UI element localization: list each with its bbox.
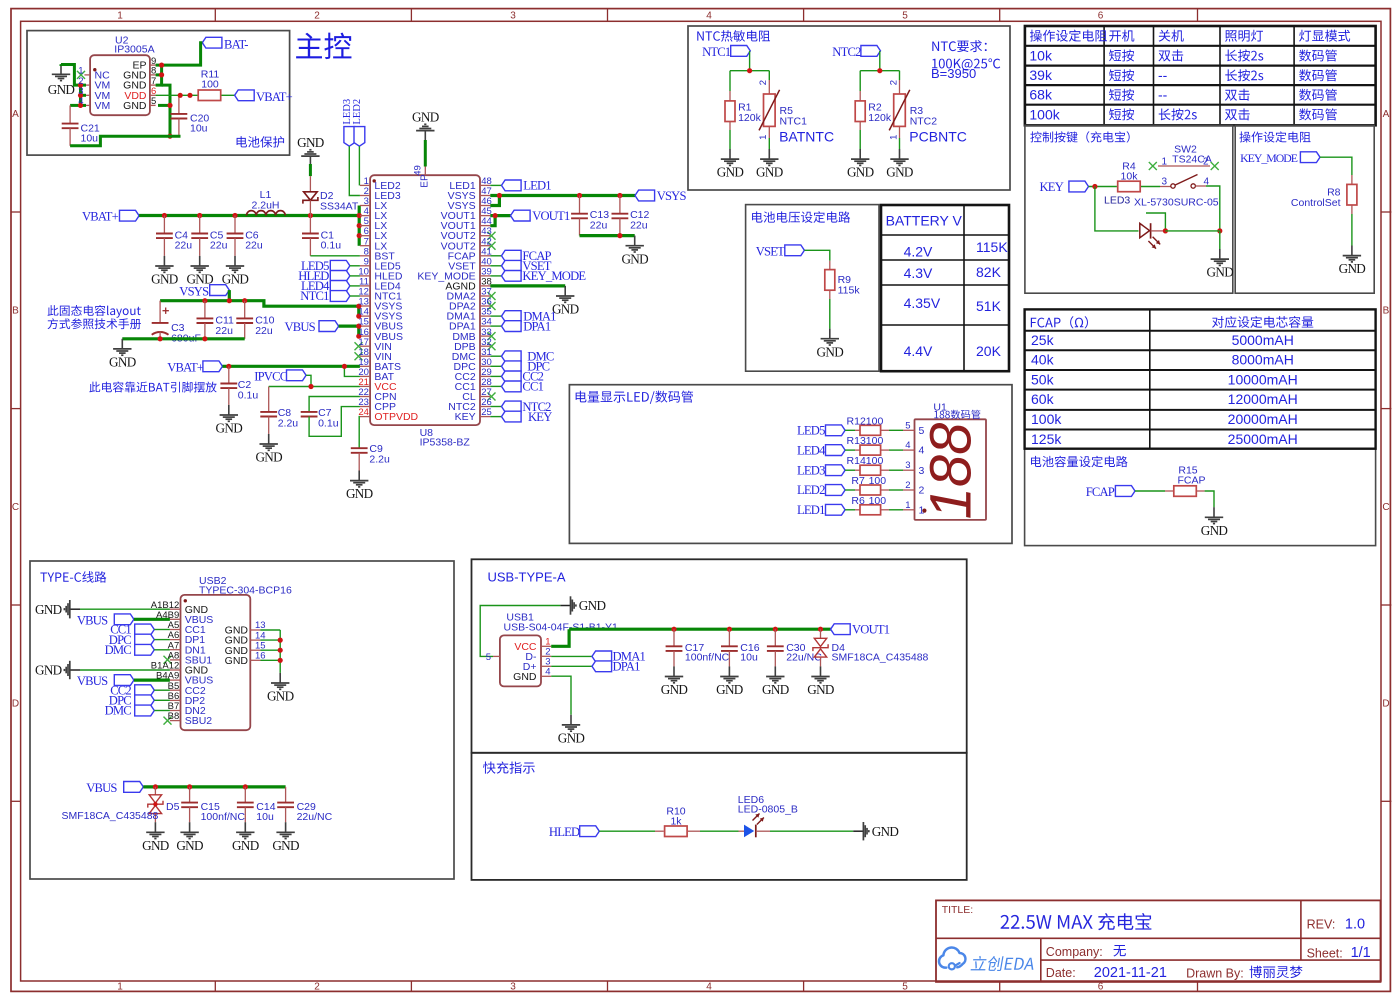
svg-text:6: 6 — [1098, 11, 1104, 22]
wire AGND pin38 — [490, 284, 565, 287]
wire CPN to C7 — [309, 397, 360, 412]
resistor R8 ControlSet — [1347, 184, 1357, 205]
svg-text:5: 5 — [905, 420, 910, 431]
svg-text:22u: 22u — [255, 325, 273, 337]
svg-text:USB-TYPE-A: USB-TYPE-A — [488, 570, 566, 585]
NTC section box — [688, 26, 1010, 190]
U8 left pins — [360, 184, 370, 186]
svg-text:GND: GND — [255, 450, 282, 465]
svg-text:2.2uH: 2.2uH — [251, 199, 279, 211]
svg-text:GND: GND — [346, 486, 373, 501]
wire GND bus right of USB2 — [279, 630, 281, 673]
svg-text:GND: GND — [716, 682, 743, 697]
svg-text:22u: 22u — [630, 220, 648, 232]
capacitor C20 — [178, 95, 180, 114]
resistor R10 1k — [665, 826, 688, 837]
svg-text:LED-0805_B: LED-0805_B — [738, 803, 798, 815]
svg-text:GND: GND — [272, 838, 299, 853]
ground R8 — [1351, 246, 1353, 256]
label 操作设定电阻 — [1239, 131, 1310, 142]
svg-text:KEY_MODE: KEY_MODE — [1240, 151, 1298, 165]
svg-text:PCBNTC: PCBNTC — [909, 128, 967, 144]
svg-text:SS34AT: SS34AT — [320, 201, 359, 213]
svg-text:5000mAH: 5000mAH — [1232, 332, 1294, 348]
svg-text:D: D — [1382, 699, 1389, 710]
TVS diode D5 — [154, 787, 156, 795]
svg-text:3: 3 — [510, 982, 516, 993]
svg-text:1: 1 — [1162, 156, 1168, 167]
svg-text:2021-11-21: 2021-11-21 — [1094, 965, 1167, 981]
svg-text:NTC2: NTC2 — [910, 116, 938, 128]
svg-text:4: 4 — [905, 440, 910, 451]
TVS diode D4 — [820, 629, 822, 638]
svg-text:--: -- — [1158, 67, 1168, 83]
svg-text:4.2V: 4.2V — [904, 244, 933, 260]
wire VSET to R9 — [804, 250, 829, 260]
svg-text:115k: 115k — [838, 285, 861, 297]
wire LED3 net stub — [1146, 213, 1165, 231]
svg-text:10k: 10k — [1029, 47, 1053, 63]
svg-text:LED1: LED1 — [797, 503, 825, 517]
operation resistor section box — [1235, 125, 1374, 293]
note 此电容靠近BAT引脚摆放 — [89, 382, 216, 393]
wire HLED to R10 — [599, 830, 655, 832]
svg-text:BATTERY V: BATTERY V — [886, 212, 963, 228]
ground key circuit — [1219, 249, 1221, 259]
label 电池容量设定电路 — [1031, 456, 1128, 467]
net flags DMC DPC CC2 CC1 — [490, 355, 501, 357]
USB1 pins — [493, 655, 500, 657]
FCAP table text — [1031, 316, 1088, 328]
svg-text:GND: GND — [558, 731, 585, 746]
svg-text:1: 1 — [888, 135, 899, 140]
svg-text:4: 4 — [706, 11, 712, 22]
svg-text:1: 1 — [117, 982, 123, 993]
svg-text:GND: GND — [35, 663, 62, 678]
svg-text:BATNTC: BATNTC — [779, 128, 834, 144]
svg-text:5: 5 — [151, 96, 156, 107]
IC U2 IP3005A body — [90, 55, 150, 115]
wire C7 to CPP — [309, 407, 360, 437]
ground AGND — [564, 286, 566, 296]
svg-text:2: 2 — [1203, 156, 1209, 167]
net flag BAT- — [202, 37, 222, 48]
svg-text:LED2: LED2 — [797, 483, 825, 497]
capacitor C8 — [268, 387, 270, 412]
wire GND B to USB2 — [80, 669, 170, 671]
wire LED4 to R13 — [845, 449, 855, 451]
svg-text:FCAP: FCAP — [1086, 485, 1115, 499]
svg-text:3: 3 — [919, 465, 925, 477]
wire R10 to LED6 — [688, 830, 700, 832]
svg-text:3: 3 — [510, 11, 516, 22]
title block frame — [936, 900, 1381, 982]
wire VBUS to pins 15 16 — [339, 325, 360, 328]
svg-text:VSYS: VSYS — [179, 284, 209, 298]
wire R14 to U1 — [881, 469, 889, 471]
svg-text:125k: 125k — [1031, 431, 1062, 447]
ground R9 — [829, 329, 831, 339]
svg-text:CC1: CC1 — [522, 380, 543, 394]
svg-text:0.1u: 0.1u — [238, 390, 259, 402]
svg-text:6: 6 — [1098, 982, 1104, 993]
svg-text:100: 100 — [201, 79, 219, 91]
label TYPE-C线路 — [40, 571, 106, 583]
svg-text:HLED: HLED — [549, 825, 580, 839]
svg-text:LED5: LED5 — [797, 424, 825, 438]
svg-text:VBUS: VBUS — [86, 781, 117, 795]
svg-text:GND: GND — [1339, 261, 1366, 276]
wire VBUS A — [134, 618, 170, 621]
svg-text:22u: 22u — [590, 220, 608, 232]
svg-text:39k: 39k — [1029, 67, 1053, 83]
wire IPVCC VCC net — [306, 375, 311, 386]
wire R13 to U1 — [881, 449, 889, 451]
svg-text:5: 5 — [486, 652, 491, 663]
resistor R11 — [198, 90, 221, 101]
wire R12 to U1 — [881, 429, 889, 431]
wire NTC1 junction — [749, 51, 751, 71]
svg-text:VM: VM — [95, 100, 111, 112]
wire GND A to USB2 — [80, 608, 170, 610]
svg-text:OTPVDD: OTPVDD — [374, 411, 418, 423]
ground C15 — [189, 822, 191, 832]
wire VBAT+ to BATS pin19 — [223, 365, 360, 368]
capacitor C10 — [244, 301, 246, 319]
junction dots on VBAT+ rail — [162, 213, 167, 218]
svg-text:16: 16 — [255, 651, 266, 662]
resistor R6 100 — [860, 505, 881, 515]
USB2 left pins — [170, 608, 181, 610]
svg-text:10u: 10u — [740, 652, 758, 664]
svg-text:KEY_MODE: KEY_MODE — [522, 269, 586, 283]
ground USB2 right — [279, 673, 281, 683]
svg-text:R7: R7 — [851, 475, 865, 487]
LCEDA logo — [939, 947, 965, 967]
svg-text:VOUT1: VOUT1 — [852, 623, 890, 637]
wire LED6 to GND — [756, 830, 770, 832]
ground rail C13 C12 — [580, 234, 635, 237]
capacitor C12 — [619, 196, 621, 214]
USB2 right pins 13-16 — [250, 629, 260, 631]
ground D5 — [154, 822, 156, 832]
ground R2 — [859, 149, 861, 159]
wire VSYS rail right — [490, 194, 635, 197]
svg-text:100: 100 — [866, 455, 884, 467]
svg-text:D5: D5 — [166, 801, 180, 813]
svg-text:C: C — [1382, 502, 1389, 513]
svg-text:GND: GND — [412, 109, 439, 124]
ground C13/C12 rail — [634, 236, 636, 246]
svg-text:100: 100 — [866, 415, 884, 427]
svg-text:2.2u: 2.2u — [369, 454, 390, 466]
wire NTC2 junction — [879, 51, 881, 71]
capacitor C6 — [234, 216, 236, 234]
svg-text:120k: 120k — [738, 112, 762, 124]
svg-text:DPA1: DPA1 — [523, 319, 551, 333]
svg-text:40k: 40k — [1031, 352, 1055, 368]
wire LED3 to pin2 — [349, 146, 360, 195]
svg-text:R6: R6 — [851, 495, 865, 507]
svg-text:LED1: LED1 — [523, 179, 551, 193]
svg-text:SBU2: SBU2 — [185, 715, 213, 727]
capacitor C15 — [189, 787, 191, 803]
svg-text:VSET: VSET — [756, 244, 785, 258]
svg-text:100k: 100k — [1031, 411, 1062, 427]
svg-text:2: 2 — [314, 982, 320, 993]
svg-text:10u: 10u — [190, 122, 208, 134]
svg-text:B: B — [12, 306, 19, 317]
svg-text:2.2u: 2.2u — [278, 417, 299, 429]
svg-text:GND: GND — [225, 655, 249, 667]
svg-text:188: 188 — [919, 423, 984, 520]
battery protection section box — [27, 31, 290, 156]
display U1 188 body — [915, 419, 987, 520]
ground C30 — [774, 666, 776, 676]
U2 right pins 9-5 — [150, 64, 156, 66]
ground symbol left of U2 — [60, 64, 62, 74]
battery capacity section box — [1025, 309, 1376, 545]
svg-text:R14: R14 — [847, 455, 866, 467]
capacitor C3 (polarized 680uF) — [159, 301, 161, 323]
capacitor C7 — [301, 411, 318, 413]
wire R11 to VBAT+ — [222, 94, 235, 96]
svg-text:C: C — [12, 502, 19, 513]
svg-text:100: 100 — [866, 435, 884, 447]
svg-text:NTC1: NTC1 — [780, 116, 808, 128]
svg-text:5: 5 — [902, 11, 908, 22]
svg-text:SMF18CA_C435488: SMF18CA_C435488 — [832, 652, 929, 664]
svg-text:25000mAH: 25000mAH — [1228, 431, 1298, 447]
svg-text:LED2: LED2 — [352, 99, 363, 125]
ground R15 — [1213, 507, 1215, 517]
svg-text:IP5358-BZ: IP5358-BZ — [420, 437, 471, 449]
svg-text:NTC1: NTC1 — [300, 289, 329, 303]
svg-text:2: 2 — [905, 480, 910, 491]
ground rail under C3 — [122, 337, 244, 340]
note 此固态电容layout — [48, 305, 141, 318]
svg-text:GND: GND — [176, 838, 203, 853]
svg-text:GND: GND — [513, 671, 537, 683]
svg-text:GND: GND — [886, 165, 913, 180]
svg-text:Company:: Company: — [1046, 945, 1103, 959]
U2 left pins 1-4 — [84, 74, 90, 76]
svg-text:22u: 22u — [175, 240, 193, 252]
svg-text:22u: 22u — [215, 325, 233, 337]
label 电量显示LED/数码管 — [576, 391, 693, 404]
svg-text:GND: GND — [817, 344, 844, 359]
svg-text:100: 100 — [869, 475, 887, 487]
inductor L1 — [247, 211, 257, 216]
battery voltage section box — [746, 205, 879, 372]
svg-text:GND: GND — [48, 82, 75, 97]
wire R6 to U1 — [881, 509, 889, 511]
svg-text:50k: 50k — [1031, 371, 1055, 387]
control key section box — [1025, 125, 1233, 293]
svg-text:VSYS: VSYS — [657, 189, 687, 203]
ground C14 — [244, 822, 246, 832]
svg-text:4: 4 — [706, 982, 712, 993]
svg-text:XL-5730SURC-05: XL-5730SURC-05 — [1134, 197, 1219, 209]
capacitor C9 — [351, 447, 368, 449]
wire GND pin7 to pin5 and C20 rail — [162, 85, 170, 136]
wire KEY to R4 — [1089, 186, 1117, 188]
ground above D2 (flipped) — [309, 156, 311, 165]
svg-text:4: 4 — [545, 667, 550, 678]
wire R7 to U1 — [881, 489, 889, 491]
thermistor R5 — [768, 71, 770, 80]
svg-text:1: 1 — [758, 135, 769, 140]
resistor R2 120k — [859, 71, 861, 91]
wire KEY down to LED — [1095, 187, 1139, 231]
bottom ground rail wire — [70, 136, 180, 146]
svg-text:KEY: KEY — [1040, 180, 1064, 194]
capacitor C21 — [69, 105, 71, 123]
svg-text:GND: GND — [109, 355, 136, 370]
svg-text:FCAP: FCAP — [1177, 474, 1205, 486]
svg-text:VBAT+: VBAT+ — [82, 210, 119, 224]
operation table text — [1030, 30, 1107, 42]
ground flag (fast charge) — [853, 830, 863, 832]
svg-text:10u: 10u — [81, 132, 99, 144]
svg-text:4.3V: 4.3V — [904, 265, 933, 281]
svg-text:VOUT1: VOUT1 — [532, 209, 570, 223]
svg-text:GND: GND — [267, 689, 294, 704]
svg-text:NTC2: NTC2 — [832, 45, 861, 59]
svg-text:BAT-: BAT- — [224, 37, 248, 51]
capacitor C29 — [285, 787, 287, 803]
svg-text:GND: GND — [151, 272, 178, 287]
svg-text:GND: GND — [142, 838, 169, 853]
resistor R13 100 — [860, 445, 881, 455]
svg-text:VBUS: VBUS — [77, 613, 108, 627]
svg-text:1: 1 — [919, 504, 925, 516]
svg-text:25k: 25k — [1031, 332, 1055, 348]
svg-text:VBUS: VBUS — [284, 320, 315, 334]
svg-text:IPVCC: IPVCC — [254, 370, 287, 384]
wire VBAT+ main rail — [139, 214, 311, 217]
svg-text:GND: GND — [1207, 265, 1234, 280]
net flag VBAT+ (U2) — [235, 90, 255, 101]
svg-text:GND: GND — [35, 602, 62, 617]
ground R3 — [899, 149, 901, 159]
wire USB1 GND pin4 — [551, 676, 571, 715]
wire switch to LED rail — [1206, 186, 1220, 231]
svg-text:GND: GND — [807, 682, 834, 697]
svg-text:100: 100 — [869, 495, 887, 507]
svg-text:TITLE:: TITLE: — [942, 904, 974, 916]
svg-text:1k: 1k — [670, 815, 682, 827]
LX bus bar — [358, 206, 361, 246]
svg-text:68k: 68k — [1029, 87, 1053, 103]
wire LED2 to R7 — [845, 489, 855, 491]
svg-text:NTC1: NTC1 — [702, 45, 731, 59]
svg-text:22u: 22u — [245, 240, 263, 252]
svg-text:GND: GND — [1201, 523, 1228, 538]
svg-text:Date:: Date: — [1046, 966, 1076, 980]
svg-text:GND: GND — [717, 165, 744, 180]
svg-text:1.0: 1.0 — [1345, 916, 1365, 932]
svg-text:8000mAH: 8000mAH — [1232, 352, 1294, 368]
connector USB1 body — [500, 635, 541, 686]
ground C2 — [228, 405, 230, 415]
svg-text:GND: GND — [232, 838, 259, 853]
svg-text:10000mAH: 10000mAH — [1228, 371, 1298, 387]
thermistor R3 — [899, 71, 901, 80]
diode D2 SS34AT — [309, 164, 312, 176]
svg-text:20000mAH: 20000mAH — [1228, 411, 1298, 427]
capacitor C1 — [309, 216, 311, 234]
resistor R9 115k — [825, 270, 835, 291]
svg-text:5: 5 — [919, 425, 925, 437]
svg-text:3: 3 — [905, 460, 910, 471]
svg-text:GND: GND — [297, 135, 324, 150]
wire R4 to switch — [1141, 186, 1160, 188]
svg-text:100nf/NC: 100nf/NC — [685, 652, 730, 664]
resistor R15 FCAP — [1174, 486, 1197, 497]
net flag VOUT1 (U8) — [511, 210, 531, 221]
FCAP table — [1025, 309, 1376, 448]
svg-text:2: 2 — [314, 11, 320, 22]
resistor R14 100 — [860, 465, 881, 475]
capacitor C5 — [199, 216, 201, 234]
label NTC热敏电阻 — [697, 30, 770, 42]
fast charge section box — [472, 753, 967, 880]
svg-text:10u: 10u — [256, 811, 274, 823]
net flags NTC2 KEY — [490, 406, 501, 408]
resistor R4 10k — [1118, 181, 1141, 192]
ground C5 — [199, 256, 201, 266]
svg-text:GND: GND — [552, 302, 579, 317]
no-connect X on U2 pin1 — [77, 71, 85, 79]
wire VOUT1 pins 45 44 — [490, 214, 510, 217]
svg-text:51K: 51K — [976, 298, 1002, 314]
capacitor C4 — [163, 216, 165, 234]
svg-text:4.4V: 4.4V — [904, 343, 933, 359]
svg-text:0.1u: 0.1u — [321, 240, 342, 252]
ground C6 — [234, 256, 236, 266]
svg-text:KEY: KEY — [455, 411, 476, 423]
ground C3 rail — [121, 339, 123, 349]
ground USB1 — [570, 715, 572, 725]
wire VDD net — [156, 94, 200, 96]
note NTC要求 — [932, 40, 986, 52]
net flag VOUT1 (USB-A) — [831, 624, 851, 635]
frame row ticks — [11, 211, 21, 213]
svg-text:4: 4 — [78, 96, 83, 107]
svg-text:DMC: DMC — [105, 704, 132, 718]
svg-text:LED4: LED4 — [797, 443, 826, 457]
svg-text:24: 24 — [358, 407, 369, 418]
junction dots U2 left — [78, 83, 83, 88]
svg-text:GND: GND — [579, 598, 606, 613]
ground flag (typec B) — [70, 669, 80, 671]
capacitor C17 — [673, 629, 675, 646]
wire BAT- to EP/GND pins — [156, 43, 203, 65]
svg-text:GND: GND — [621, 251, 648, 266]
net flag LED1 — [490, 184, 501, 186]
label 电池电压设定电路 — [752, 211, 850, 223]
ground flag (typec A) — [70, 608, 80, 610]
U8 top pin 49 EP — [424, 167, 426, 176]
battery voltage table — [881, 205, 1009, 371]
ground C16 — [728, 666, 730, 676]
svg-text:--: -- — [1158, 87, 1168, 103]
capacitor C30 — [774, 629, 776, 646]
U8 right pins — [480, 184, 490, 186]
svg-text:12000mAH: 12000mAH — [1228, 391, 1298, 407]
svg-text:DMC: DMC — [105, 643, 132, 657]
